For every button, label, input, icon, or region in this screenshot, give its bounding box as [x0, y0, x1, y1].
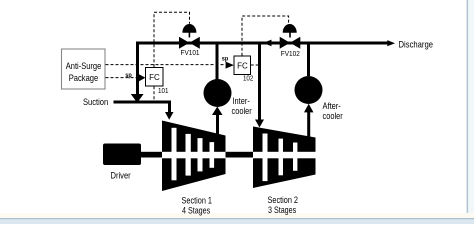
valve FV102 — [280, 24, 301, 49]
controller FC 102 — [234, 56, 251, 75]
after-cooler vessel — [295, 76, 323, 104]
wire section 2 suction downcomer — [258, 44, 261, 120]
svg-text:sp: sp — [222, 55, 229, 62]
svg-text:FV101: FV101 — [181, 50, 200, 57]
controller FC 101 — [146, 68, 164, 87]
svg-text:4 Stages: 4 Stages — [182, 206, 210, 217]
wire suction drop — [168, 101, 171, 113]
svg-text:101: 101 — [158, 88, 169, 95]
svg-text:FC: FC — [237, 61, 248, 70]
window chrome right separator line — [467, 0, 469, 218]
compressor section 2 body — [253, 127, 316, 189]
anti-surge package box — [62, 49, 106, 89]
svg-text:cooler: cooler — [232, 106, 252, 117]
window chrome bottom band top edge — [0, 218, 474, 219]
driver M1 — [103, 144, 141, 166]
svg-text:Anti-Surge: Anti-Surge — [66, 61, 102, 72]
shaft driver to section 1 — [140, 152, 163, 158]
inter-cooler vessel — [204, 79, 232, 107]
svg-text:sp: sp — [125, 72, 132, 79]
window chrome faint band — [0, 213, 474, 218]
arrow recycle into suction — [131, 94, 144, 103]
svg-text:Package: Package — [69, 73, 99, 84]
svg-text:FC: FC — [149, 73, 160, 82]
svg-text:Driver: Driver — [111, 171, 131, 182]
window chrome right margin — [468, 0, 474, 218]
wire after-cooler riser — [307, 44, 310, 76]
svg-text:Discharge: Discharge — [399, 40, 434, 51]
valve FV101 — [179, 24, 200, 49]
wire inter-cooler riser — [216, 44, 219, 80]
window chrome bottom band — [0, 218, 474, 224]
wire section 2 discharge to after-cooler — [307, 112, 310, 137]
wire suction line — [114, 101, 172, 104]
compressor section 1 body — [162, 121, 226, 192]
signal dashed FC 101 to FV101 actuator — [154, 12, 190, 67]
shaft section 1 to section 2 — [224, 152, 254, 158]
arrow into section 2 — [255, 120, 264, 128]
signal dashed FC 102 measurement tap — [251, 64, 258, 66]
svg-text:Suction: Suction — [83, 97, 108, 108]
arrow sp into FC 101 — [139, 74, 145, 81]
signal dashed sp to FC 102 — [106, 64, 226, 66]
arrow sp into FC 102 — [226, 62, 234, 69]
signal dashed FC 102 to FV102 actuator — [242, 16, 289, 56]
arrow into inter-cooler — [212, 107, 223, 116]
wire left recycle downcomer — [136, 42, 139, 95]
signal dashed FC 101 measurement tap — [153, 86, 155, 100]
svg-text:FV102: FV102 — [281, 51, 300, 58]
signal dashed sp to FC 101 — [106, 77, 139, 79]
wire main recycle/discharge pipe — [136, 42, 388, 45]
wire section 1 discharge to inter-cooler — [216, 114, 219, 135]
arrow into after-cooler — [304, 104, 314, 113]
svg-text:cooler: cooler — [323, 111, 343, 122]
svg-text:102: 102 — [243, 76, 253, 83]
arrow recycle flow left — [263, 40, 271, 47]
arrow discharge — [387, 40, 395, 46]
svg-text:3 Stages: 3 Stages — [268, 205, 296, 216]
arrow suction into section 1 — [165, 112, 174, 120]
